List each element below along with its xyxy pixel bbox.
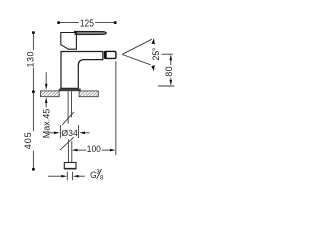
svg-text:130: 130 — [26, 52, 36, 68]
svg-text:8: 8 — [100, 175, 104, 182]
svg-text:405: 405 — [23, 132, 33, 149]
svg-text:Max.45: Max.45 — [41, 109, 51, 139]
svg-text:25°: 25° — [151, 47, 161, 60]
svg-text:125: 125 — [80, 18, 94, 30]
svg-text:100: 100 — [87, 144, 101, 155]
svg-text:Ø34: Ø34 — [61, 128, 78, 138]
svg-text:80: 80 — [164, 66, 174, 76]
